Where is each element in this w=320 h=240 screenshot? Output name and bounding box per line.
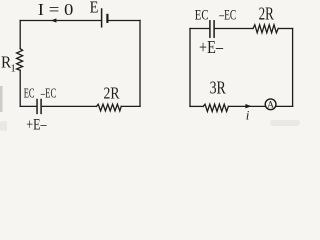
svg-text:E: E <box>90 0 99 17</box>
svg-text:1: 1 <box>10 62 16 74</box>
svg-text:i: i <box>246 108 250 123</box>
svg-text:+E–: +E– <box>26 116 46 131</box>
svg-text:2R: 2R <box>259 4 275 24</box>
svg-text:–EC: –EC <box>219 7 237 23</box>
svg-text:3R: 3R <box>210 77 227 97</box>
svg-text:2R: 2R <box>104 84 121 103</box>
svg-text:–EC: –EC <box>40 85 56 100</box>
svg-text:+E–: +E– <box>199 37 224 57</box>
svg-text:EC: EC <box>195 7 209 23</box>
svg-text:EC: EC <box>24 85 35 100</box>
svg-text:I = 0: I = 0 <box>38 0 74 19</box>
svg-text:A: A <box>267 101 274 111</box>
